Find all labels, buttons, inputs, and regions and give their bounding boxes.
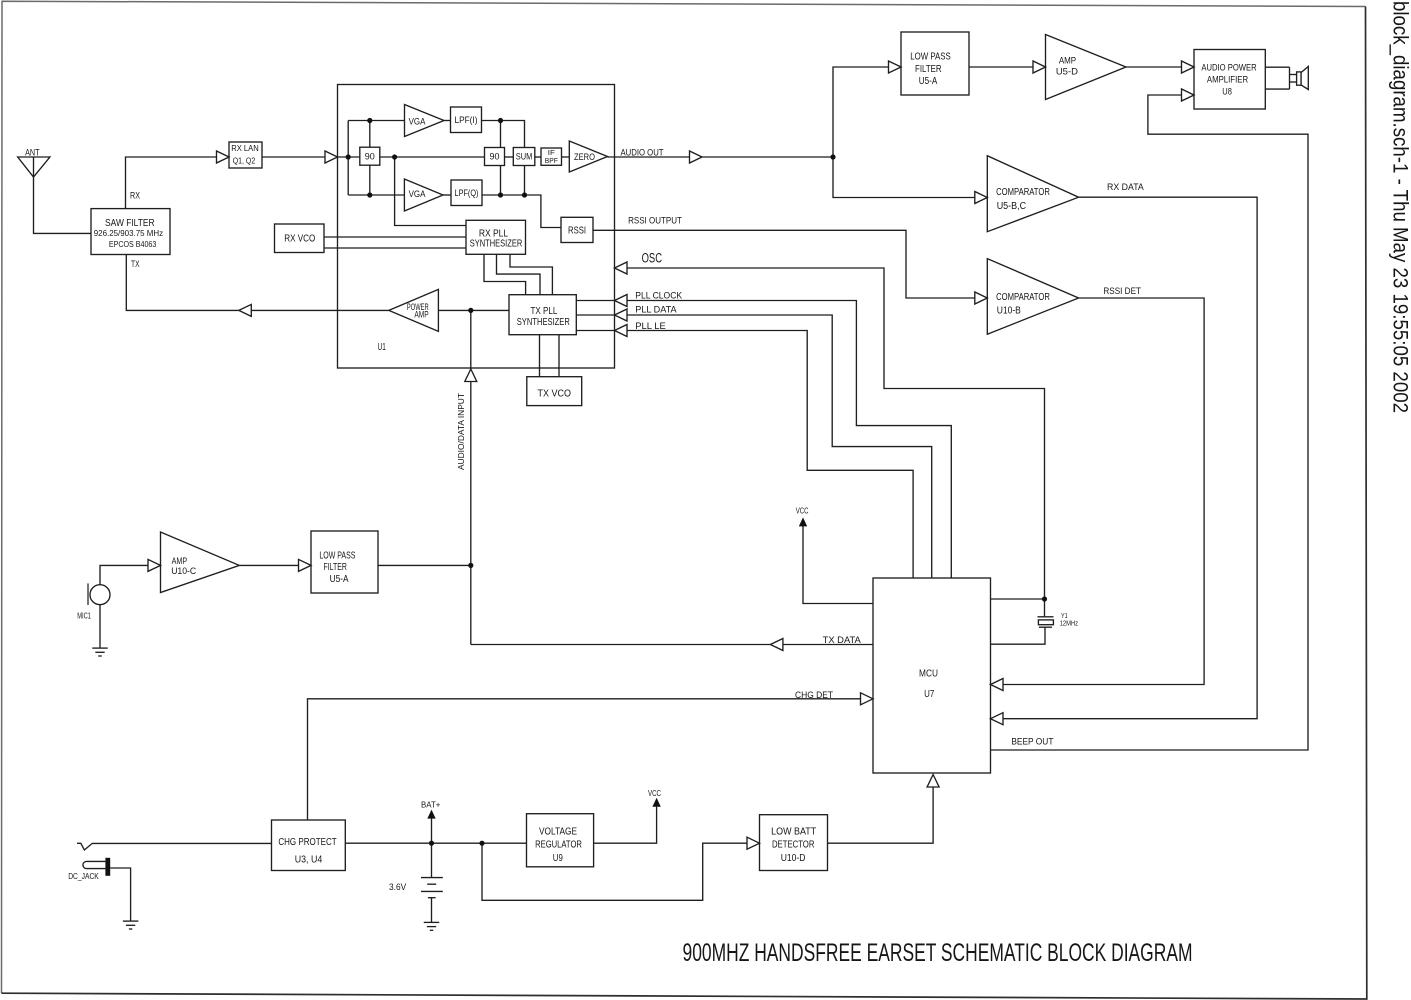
svg-text:U10-D: U10-D — [781, 853, 806, 864]
amplifier ZERO — [569, 141, 607, 172]
svg-text:926.25/903.75 MHz: 926.25/903.75 MHz — [94, 229, 163, 238]
wire net PLL CLOCK — [576, 301, 951, 579]
svg-text:Y1: Y1 — [1061, 613, 1068, 620]
filter IF BPF — [541, 148, 562, 165]
svg-text:COMPARATOR: COMPARATOR — [996, 187, 1050, 198]
wire Q branch — [348, 194, 404, 196]
wire net TX DATA — [471, 644, 873, 646]
svg-text:OSC: OSC — [642, 251, 663, 266]
arrow into comparator U10-B — [975, 292, 988, 304]
svg-text:U5-A: U5-A — [330, 574, 349, 585]
svg-text:U9: U9 — [553, 853, 563, 864]
svg-text:DETECTOR: DETECTOR — [772, 840, 815, 851]
svg-text:AMP: AMP — [172, 556, 188, 566]
svg-text:SUM: SUM — [516, 152, 533, 162]
svg-text:VCC: VCC — [796, 507, 809, 516]
svg-text:RSSI OUTPUT: RSSI OUTPUT — [628, 216, 682, 227]
junction Q line at SUM — [522, 192, 527, 197]
wire net PLL DATA — [576, 315, 931, 578]
amplifier AMP U5-D — [1046, 35, 1127, 100]
arrow on TX line — [239, 304, 252, 316]
wire net PLL LE — [576, 331, 913, 579]
wire net CHG DET — [308, 699, 874, 820]
arrow into LPF U5-A mic — [299, 559, 312, 571]
component LOW PASS FILTER U5-A (rx audio) — [901, 32, 969, 95]
wire 90-2 to SUM — [505, 156, 514, 158]
wire net AUDIO/DATA INPUT vertical — [470, 310, 472, 644]
mixer 90 block 2 — [485, 148, 505, 166]
arrow into LPF U5-A top — [889, 61, 902, 73]
svg-text:3.6V: 3.6V — [389, 882, 406, 892]
svg-text:12MHz: 12MHz — [1060, 620, 1079, 627]
svg-text:U10-C: U10-C — [171, 566, 196, 576]
svg-text:PLL CLOCK: PLL CLOCK — [635, 290, 682, 301]
arrow RSSI DET into MCU — [991, 679, 1004, 691]
wire net OSC — [615, 268, 1045, 599]
svg-text:U10-B: U10-B — [997, 305, 1021, 316]
wire LPF U5-A to AMP U5-D — [969, 66, 1046, 68]
svg-text:PLL DATA: PLL DATA — [635, 305, 677, 316]
wire crystal to MCU bottom pin — [991, 627, 1046, 644]
arrow CHG DET into MCU — [861, 693, 874, 705]
component VOLTAGE REGULATOR U9 — [527, 814, 594, 867]
arrow on AUDIO OUT line — [690, 151, 703, 163]
wire TX PLL to TX VCO pin 2 — [558, 335, 560, 377]
svg-text:900MHZ HANDSFREE EARSET SCHEMA: 900MHZ HANDSFREE EARSET SCHEMATIC BLOCK … — [683, 939, 1193, 967]
junction U1 input node — [346, 154, 351, 159]
svg-text:AUDIO POWER: AUDIO POWER — [1201, 62, 1256, 73]
block TX PLL SYNTHESIZER — [509, 295, 576, 335]
wire U1 input to first 90 block — [338, 156, 360, 158]
IC U1 outline — [338, 85, 615, 369]
ground at DC jack — [123, 920, 139, 922]
block RX PLL SYNTHESIZER — [466, 220, 526, 254]
svg-text:SYNTHESIZER: SYNTHESIZER — [470, 238, 523, 249]
wire RX VCO to RX PLL pin 2 — [324, 247, 466, 249]
junction audio data node — [468, 563, 473, 568]
wire DC jack tip to CHG PROTECT — [77, 843, 272, 850]
svg-text:AMPLIFIER: AMPLIFIER — [1207, 74, 1248, 85]
block SUM — [513, 148, 535, 166]
comparator U5-B,C — [987, 156, 1078, 232]
component TX VCO — [527, 377, 582, 406]
arrow PLL CLOCK into U1 — [615, 295, 628, 307]
svg-text:LPF(Q): LPF(Q) — [455, 188, 479, 198]
svg-text:MIC1: MIC1 — [77, 612, 91, 621]
power symbol BAT+ — [427, 810, 435, 819]
mixer 90 block 1 — [360, 147, 380, 165]
wire power amp to TX PLL — [438, 309, 509, 311]
power symbol VCC at MCU — [799, 517, 807, 526]
component AUDIO POWER AMPLIFIER U8 — [1194, 50, 1265, 110]
svg-text:DC_JACK: DC_JACK — [68, 872, 99, 881]
arrow into U1 RF input — [325, 151, 338, 163]
arrow OSC into U1 — [615, 262, 628, 274]
component LOW BATT DETECTOR U10-D — [760, 815, 828, 871]
svg-text:Q1, Q2: Q1, Q2 — [233, 157, 256, 166]
wire audio junction down to comparator U5-B,C — [833, 157, 987, 198]
wire VOLTAGE REGULATOR to VCC — [594, 807, 657, 844]
wire BAT+ arrow stem — [431, 819, 433, 844]
svg-text:LOW PASS: LOW PASS — [910, 52, 951, 63]
svg-text:block_diagram.sch-1 - Thu May: block_diagram.sch-1 - Thu May 23 19:55:0… — [1389, 1, 1411, 413]
antenna ANT — [18, 157, 50, 177]
wire battery node to LOW BATT DETECTOR — [482, 843, 760, 900]
wire MIC1 to ground — [99, 605, 101, 648]
arrow PLL DATA into U1 — [615, 309, 628, 321]
wire LPF U5-A to audio data node — [378, 564, 471, 566]
wire 90 block 1 to Q line — [369, 165, 371, 195]
svg-text:VGA: VGA — [409, 189, 426, 199]
svg-text:U8: U8 — [1222, 87, 1232, 98]
svg-text:U5-D: U5-D — [1056, 67, 1079, 77]
wire 90 block 2 to Q line — [500, 166, 502, 196]
svg-text:90: 90 — [365, 151, 375, 161]
svg-text:RX DATA: RX DATA — [1107, 182, 1144, 193]
svg-text:BEEP OUT: BEEP OUT — [1011, 737, 1053, 748]
comparator U10-B — [987, 259, 1078, 335]
wire LO tap to RX PLL — [395, 157, 466, 226]
junction Q line at 90 block 2 — [498, 192, 503, 197]
arrow AUDIO/DATA INPUT into U1 — [465, 369, 477, 382]
svg-text:LPF(I): LPF(I) — [455, 115, 478, 125]
wire I branch split — [347, 121, 349, 196]
component CHG PROTECT U3 U4 — [272, 820, 346, 871]
svg-text:AUDIO/DATA INPUT: AUDIO/DATA INPUT — [457, 393, 466, 470]
svg-text:U5-B,C: U5-B,C — [997, 201, 1026, 212]
arrow TX DATA — [770, 639, 783, 651]
amplifier VGA (I) — [405, 105, 445, 137]
amplifier AMP U10-C — [161, 532, 240, 593]
svg-text:BPF: BPF — [545, 156, 558, 165]
power symbol VCC at regulator — [652, 798, 660, 807]
wire RX VCO to RX PLL pin 1 — [324, 236, 466, 238]
svg-text:VOLTAGE: VOLTAGE — [539, 826, 577, 837]
wire LPF(Q) to RSSI — [482, 195, 561, 228]
svg-text:TX PLL: TX PLL — [531, 306, 558, 317]
svg-text:ANT: ANT — [25, 148, 40, 158]
wire battery stem — [431, 843, 433, 877]
wire VGA to LPF(I) — [444, 120, 451, 122]
svg-text:MCU: MCU — [919, 668, 938, 680]
svg-text:COMPARATOR: COMPARATOR — [996, 292, 1050, 303]
arrow into RX LAN — [217, 151, 230, 163]
svg-text:RX: RX — [130, 191, 140, 201]
wire RX PLL to TX PLL stair 1 — [484, 254, 526, 294]
svg-text:SAW FILTER: SAW FILTER — [105, 217, 155, 229]
crystal Y1 12MHz — [1044, 599, 1046, 617]
svg-text:VGA: VGA — [409, 116, 426, 126]
wire MIC1 to AMP U10-C — [100, 565, 161, 584]
svg-text:VCC: VCC — [648, 789, 661, 798]
wire LPF(I) tap to 90 block 2 — [500, 121, 502, 148]
junction power amp node — [468, 308, 473, 313]
component RX VCO — [275, 224, 325, 253]
wire DC jack sleeve to ground — [110, 868, 130, 921]
arrow into AMP U10-C — [148, 559, 161, 571]
arrow into MCU bottom — [927, 775, 939, 788]
junction crystal node — [1042, 596, 1047, 601]
wire TX PLL to TX VCO pin 1 — [539, 335, 541, 377]
component LOW PASS FILTER U5-A (mic) — [311, 531, 378, 593]
svg-text:U7: U7 — [924, 688, 934, 700]
wire net BEEP OUT to U8 — [991, 95, 1309, 750]
svg-text:TX VCO: TX VCO — [538, 387, 572, 399]
microphone MIC1 — [87, 583, 89, 605]
svg-text:AMP: AMP — [414, 309, 428, 319]
wire battery to ground — [431, 898, 433, 923]
svg-text:RSSI DET: RSSI DET — [1103, 286, 1141, 297]
arrow into U8 input 1 — [1182, 61, 1195, 73]
wire I tap to 90 block 1 — [369, 121, 371, 148]
svg-text:RX VCO: RX VCO — [284, 233, 315, 245]
filter LPF(Q) — [451, 180, 482, 206]
wire AMP U10-C to LPF U5-A — [239, 564, 311, 566]
svg-text:RSSI: RSSI — [568, 225, 586, 236]
component SAW FILTER — [91, 209, 170, 255]
amplifier POWER AMP — [389, 289, 439, 331]
svg-text:FILTER: FILTER — [324, 562, 347, 573]
svg-text:REGULATOR: REGULATOR — [535, 840, 582, 851]
svg-text:U3, U4: U3, U4 — [295, 855, 323, 866]
wire ANT to SAW FILTER — [34, 157, 92, 233]
junction LPF(I) output — [498, 118, 503, 123]
ground at battery — [424, 921, 440, 923]
arrow into AMP U5-D — [1033, 61, 1046, 73]
svg-text:AUDIO OUT: AUDIO OUT — [620, 148, 663, 159]
wire net RSSI DET to MCU — [991, 298, 1205, 685]
svg-text:LOW PASS: LOW PASS — [319, 550, 355, 561]
wire net AUDIO OUT — [608, 156, 834, 158]
arrow into comparator U5-B,C — [975, 192, 988, 204]
wire audio junction up to low pass filter U5-A — [833, 67, 901, 157]
wire RX PLL to TX PLL stair 2 — [497, 254, 541, 294]
wire net VCC to MCU — [803, 526, 873, 604]
wire net RX (SAW to RX LAN to U1) — [126, 157, 230, 209]
svg-text:U1: U1 — [378, 342, 386, 353]
wire LPF(I) to SUM — [482, 121, 525, 148]
svg-text:CHG DET: CHG DET — [795, 690, 833, 701]
svg-text:AMP: AMP — [1059, 56, 1076, 66]
filter LPF(I) — [451, 107, 482, 133]
wire AMP U5-D to audio power amplifier U8 — [1126, 66, 1194, 68]
wire MCU to crystal top — [991, 598, 1045, 600]
svg-text:PLL LE: PLL LE — [635, 321, 666, 332]
IC MCU U7 — [873, 578, 991, 773]
component RX LAN Q1 Q2 — [229, 142, 262, 168]
wire VGA to LPF(Q) — [443, 194, 451, 196]
wire net TX (power amp to SAW) — [126, 255, 389, 311]
wire IF BPF to ZERO — [562, 156, 570, 158]
arrow PLL LE into U1 — [615, 325, 628, 337]
connector DC_JACK — [83, 861, 105, 868]
junction BAT+ node — [429, 841, 434, 846]
block RSSI — [561, 217, 593, 242]
arrow into LOW BATT DETECTOR — [747, 837, 760, 849]
svg-text:FILTER: FILTER — [915, 64, 942, 75]
svg-text:SYNTHESIZER: SYNTHESIZER — [517, 317, 570, 328]
wire net RX DATA to MCU — [991, 197, 1258, 719]
junction battery to detector node — [479, 841, 484, 846]
junction LO tap — [392, 154, 397, 159]
svg-text:EPCOS B4063: EPCOS B4063 — [109, 240, 157, 249]
ground at MIC1 — [92, 647, 108, 649]
wire main line 90-1 to 90-2 with LO tap — [380, 156, 485, 158]
speaker LS1 — [1265, 66, 1289, 68]
wire net BAT+ (CHG PROTECT to VOLTAGE REGULATOR) — [345, 842, 526, 844]
svg-text:BAT+: BAT+ — [421, 800, 441, 809]
wire RX PLL to TX PLL stair 3 — [510, 254, 552, 294]
wire LOW BATT DETECTOR to MCU — [828, 788, 934, 844]
svg-text:90: 90 — [490, 152, 500, 162]
junction I tap — [367, 118, 372, 123]
svg-text:U5-A: U5-A — [919, 76, 938, 87]
amplifier VGA (Q) — [404, 179, 443, 211]
battery BT1 3.6V — [421, 877, 443, 879]
svg-text:TX: TX — [131, 259, 140, 269]
svg-text:TX DATA: TX DATA — [823, 635, 862, 646]
wire net RSSI OUTPUT — [593, 230, 987, 298]
junction Q tap at 90 block 1 — [367, 192, 372, 197]
svg-text:CHG PROTECT: CHG PROTECT — [278, 837, 336, 848]
arrow into U8 input 2 — [1182, 89, 1195, 101]
arrow RX DATA into MCU — [991, 713, 1004, 725]
svg-text:LOW BATT: LOW BATT — [771, 826, 816, 837]
wire SUM to Q line — [524, 166, 526, 196]
wire SUM to IF BPF — [535, 156, 541, 158]
svg-text:RX LAN: RX LAN — [231, 144, 259, 153]
junction AUDIO OUT node — [830, 154, 835, 159]
svg-text:ZERO: ZERO — [574, 152, 595, 163]
